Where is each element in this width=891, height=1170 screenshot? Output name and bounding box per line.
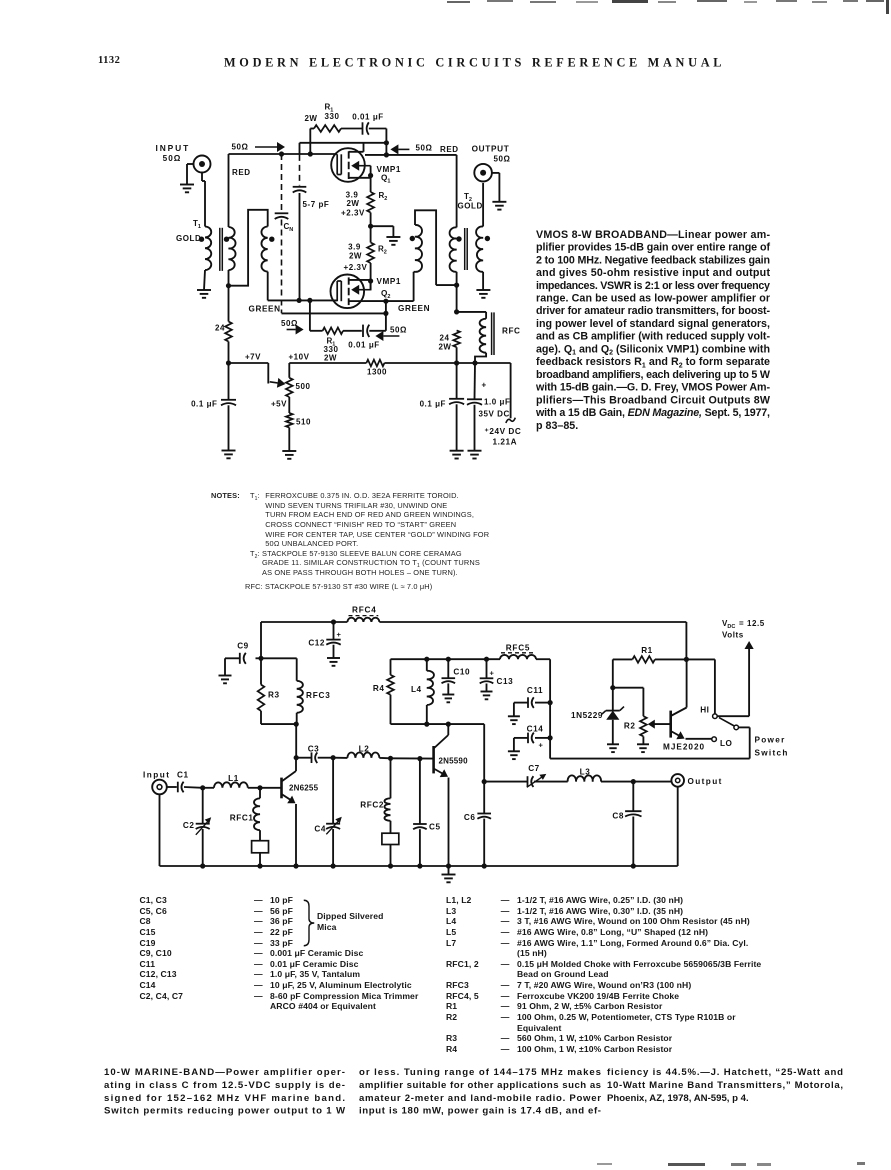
choke RFC3 (wound on R3) xyxy=(261,658,303,724)
svg-text:Volts: Volts xyxy=(722,631,744,640)
svg-text:50Ω: 50Ω xyxy=(390,326,407,335)
svg-text:ficiency is 44.5%.—J. Hatchett: ficiency is 44.5%.—J. Hatchett, “25-Watt… xyxy=(607,1067,843,1078)
svg-text:1N5229: 1N5229 xyxy=(571,711,603,720)
svg-text:+7V: +7V xyxy=(245,353,261,362)
svg-text:⁺24V DC: ⁺24V DC xyxy=(485,427,522,436)
parts list brace xyxy=(302,898,316,948)
node dot R1 left on gate line xyxy=(308,151,313,156)
svg-text:= 12.5: = 12.5 xyxy=(739,619,765,628)
svg-text:feedback resistors R1 and R2 t: feedback resistors R1 and R2 to form sep… xyxy=(536,356,770,369)
transformer T2 middle winding xyxy=(450,227,457,285)
choke RFC2 with ferrite bead xyxy=(382,758,399,866)
labels Input C1 xyxy=(143,771,189,780)
node dot mid R2 xyxy=(368,224,373,229)
resistor R3 560 ohm xyxy=(258,658,297,724)
parts list left column xyxy=(0,0,1,1)
capacitor C11 xyxy=(514,697,553,716)
svg-text:C10: C10 xyxy=(453,668,470,677)
inductor L4 (wound on R4) xyxy=(427,659,434,724)
svg-text:CN: CN xyxy=(284,222,294,233)
svg-text:range. Can be used as low-powe: range. Can be used as low-power amplifie… xyxy=(536,293,770,305)
supply rail +7V xyxy=(229,363,269,384)
node dot T2 bottom junction xyxy=(454,283,459,288)
parts list right column xyxy=(0,0,1,1)
svg-text:+2.3V: +2.3V xyxy=(344,263,368,272)
capacitor 0.01 uF (bottom) xyxy=(363,325,386,337)
svg-text:+: + xyxy=(490,669,495,678)
capacitor C9 xyxy=(225,653,261,676)
inductor L3 xyxy=(568,775,672,781)
node dots supply rail right xyxy=(454,360,478,365)
svg-text:RED: RED xyxy=(232,168,251,177)
svg-text:0.01 μF: 0.01 μF xyxy=(348,341,379,350)
svg-text:R2: R2 xyxy=(624,722,636,731)
ground (T2 right) xyxy=(476,290,490,298)
potentiometer 500 xyxy=(286,378,293,413)
resistor R1 (top feedback 330 2W) xyxy=(310,125,362,154)
svg-text:RFC3: RFC3 xyxy=(306,691,331,700)
choke RFC xyxy=(457,312,487,363)
ground (1.0uF) xyxy=(468,451,482,459)
supply feed +24V DC xyxy=(506,363,515,423)
svg-text:OUTPUT: OUTPUT xyxy=(472,145,510,154)
node dot R1 right xyxy=(684,657,689,662)
labels HI LO xyxy=(700,706,732,749)
resistor R1 91 ohm xyxy=(613,656,687,688)
svg-text:T1: T1 xyxy=(193,219,201,230)
capacitor C12 1uF tantalum xyxy=(326,622,340,658)
svg-text:and gives 50-ohm resistive inp: and gives 50-ohm resistive input and out… xyxy=(536,267,770,279)
svg-text:RFC: RFC xyxy=(502,327,520,336)
NOTES block xyxy=(211,491,240,501)
svg-text:HI: HI xyxy=(700,706,709,715)
svg-text:50Ω: 50Ω xyxy=(494,155,511,164)
capacitor 0.01 uF (top feedback) xyxy=(363,122,387,134)
capacitor C14 electrolytic xyxy=(514,733,553,752)
node dot L2/RFC2 xyxy=(388,756,393,761)
trimmer C2 xyxy=(196,788,212,866)
MOSFET Q2 (VMP1) xyxy=(331,275,371,309)
ground (output) xyxy=(492,202,506,210)
capacitor C10 xyxy=(442,659,456,694)
svg-text:50Ω: 50Ω xyxy=(281,319,298,328)
svg-text:Phoenix, AZ, 1978, AN-595, p 4: Phoenix, AZ, 1978, AN-595, p 4. xyxy=(607,1093,749,1104)
RFC core xyxy=(492,312,494,355)
wire Q1 drain line (RED) to T2 xyxy=(365,155,457,228)
output connector xyxy=(671,774,684,866)
svg-text:+2.3V: +2.3V xyxy=(341,209,365,218)
node dot Q2 drain xyxy=(383,299,388,304)
svg-text:24: 24 xyxy=(215,324,225,333)
polarity dot (red) xyxy=(224,237,229,242)
svg-text:0.01 μF: 0.01 μF xyxy=(352,113,383,122)
wire to 2N5590 base xyxy=(391,757,433,759)
svg-text:Switch permits reducing power: Switch permits reducing power output to … xyxy=(104,1106,346,1117)
RFC5 feed line xyxy=(448,658,500,660)
svg-text:RED: RED xyxy=(440,145,459,154)
input connector J1 xyxy=(187,156,211,185)
svg-text:3.9: 3.9 xyxy=(348,243,361,252)
wire T2 to supply node xyxy=(456,285,458,312)
ground (T1 gold) xyxy=(197,290,211,298)
svg-text:330: 330 xyxy=(325,112,340,121)
svg-text:0.1 μF: 0.1 μF xyxy=(420,400,446,409)
node dot RFC3 bottom xyxy=(294,722,299,727)
ground (0.1uF left) xyxy=(222,451,236,459)
svg-text:ing power level of standard si: ing power level of standard signal gener… xyxy=(536,318,770,330)
node dot output tap xyxy=(482,779,487,784)
wire supply drop (right of RFC5) xyxy=(549,659,551,758)
page number xyxy=(98,55,120,66)
label arrow 50ohm RED (right) xyxy=(390,144,458,155)
supply arrow VDC xyxy=(745,641,754,716)
input connector xyxy=(152,780,177,795)
wire lower feedback line xyxy=(282,301,386,331)
capacitor C5 xyxy=(413,759,427,866)
choke RFC4 xyxy=(347,616,379,622)
svg-text:C9: C9 xyxy=(237,642,249,651)
wire T1 red-bottom to green-top xyxy=(229,210,268,286)
ground (C14) xyxy=(508,751,520,759)
svg-text:50Ω: 50Ω xyxy=(416,144,433,153)
svg-text:2W: 2W xyxy=(324,354,337,363)
svg-text:or less. Tuning range of 144–1: or less. Tuning range of 144–175 MHz mak… xyxy=(359,1067,601,1078)
labels C14 + xyxy=(527,725,544,750)
T2 core xyxy=(465,228,468,270)
svg-text:GREEN: GREEN xyxy=(249,305,281,314)
ground (510) xyxy=(282,451,296,459)
svg-text:C5: C5 xyxy=(429,823,441,832)
node dots on Q2 gate line xyxy=(297,298,313,303)
svg-text:age). Q1 and Q2 (Siliconix VMP: age). Q1 and Q2 (Siliconix VMP1) combine… xyxy=(536,343,770,356)
node dot CN top xyxy=(279,151,284,156)
svg-text:C11: C11 xyxy=(527,686,543,695)
trimmer C4 xyxy=(326,758,342,866)
labels R1 330 2W xyxy=(304,103,339,124)
output connector J2 xyxy=(474,164,499,202)
wire Q2 drain to T2 xyxy=(364,272,414,301)
svg-text:ating in class C from 12.5-VDC: ating in class C from 12.5-VDC supply is… xyxy=(104,1080,345,1091)
ground (R2) xyxy=(637,744,649,752)
svg-text:50Ω: 50Ω xyxy=(163,154,182,163)
svg-text:C2: C2 xyxy=(183,821,195,830)
resistor 24 (left) xyxy=(225,286,232,363)
resistor 24 2W xyxy=(453,330,460,363)
svg-text:INPUT: INPUT xyxy=(155,143,190,153)
node dot C3/C4/L2 xyxy=(331,755,336,760)
resistor R2 (lower 3.9 2W) xyxy=(367,226,374,290)
svg-text:Switch: Switch xyxy=(755,749,789,758)
svg-text:Input: Input xyxy=(143,771,171,780)
rail node dots xyxy=(200,863,636,868)
resistor R1 (bottom feedback 330 2W) xyxy=(310,300,362,334)
svg-text:10-Watt Marine Band Transmitte: 10-Watt Marine Band Transmitters,” Motor… xyxy=(607,1080,843,1091)
svg-text:C14: C14 xyxy=(527,725,544,734)
wire to 2N6255 base xyxy=(260,787,281,789)
resistor 510 xyxy=(286,413,293,451)
svg-text:input is 180 mW, power gain is: input is 180 mW, power gain is 17.4 dB, … xyxy=(359,1106,601,1117)
capacitor C6 xyxy=(477,814,491,819)
ground (C10) xyxy=(442,695,454,703)
node dot zener xyxy=(610,685,615,690)
svg-text:1.21A: 1.21A xyxy=(493,438,518,447)
svg-text:10-W MARINE-BAND—Power amplifi: 10-W MARINE-BAND—Power amplifier oper- xyxy=(104,1067,345,1078)
svg-text:R2: R2 xyxy=(378,245,387,256)
node dot Q1 source xyxy=(368,173,373,178)
node dot 2N6255 collector xyxy=(294,755,299,760)
labels C12 + xyxy=(308,630,341,648)
svg-text:LO: LO xyxy=(720,739,733,748)
wire Q2 gate line (green) xyxy=(268,299,338,301)
svg-text:impedances. VSWR is 2:1 or les: impedances. VSWR is 2:1 or less over fre… xyxy=(536,280,770,292)
svg-text:Output: Output xyxy=(688,777,723,786)
ground (0.1uF right) xyxy=(450,451,464,459)
labels VMP1 Q2 xyxy=(377,277,402,300)
svg-text:C6: C6 xyxy=(464,813,476,822)
svg-text:VMOS 8-W BROADBAND—Linear powe: VMOS 8-W BROADBAND—Linear power am- xyxy=(536,229,770,241)
svg-text:RFC2: RFC2 xyxy=(360,801,384,810)
svg-text:+: + xyxy=(539,741,544,750)
node dot RFC branch xyxy=(454,309,459,314)
svg-text:amateur 2-meter and land-mobil: amateur 2-meter and land-mobile radio. P… xyxy=(359,1093,601,1104)
svg-text:0.1 μF: 0.1 μF xyxy=(191,400,217,409)
polarity dot (green) xyxy=(269,237,274,242)
ground (input) xyxy=(180,185,194,193)
svg-text:2W: 2W xyxy=(304,114,317,123)
label 50ohm with arrow (top left) xyxy=(232,142,285,152)
node dots drain junction xyxy=(384,140,389,157)
svg-text:C4: C4 xyxy=(314,825,326,834)
choke RFC1 with ferrite bead xyxy=(252,788,269,866)
transformer T2 left winding xyxy=(414,210,437,285)
svg-text:plifier provides 15-dB gain ov: plifier provides 15-dB gain over entire … xyxy=(536,242,770,254)
labels Power Switch xyxy=(755,736,789,758)
svg-text:1.0 μF: 1.0 μF xyxy=(484,398,510,407)
svg-text:RFC1: RFC1 xyxy=(230,814,254,823)
svg-text:2W: 2W xyxy=(438,343,451,352)
wire feedback to drain node xyxy=(300,129,387,155)
svg-text:Q1: Q1 xyxy=(381,174,390,185)
node dot C9/R3/RFC3 xyxy=(258,656,263,661)
T1 green winding xyxy=(261,227,267,301)
svg-text:L3: L3 xyxy=(580,768,591,777)
wire switched supply line xyxy=(550,727,750,758)
transistor MJE2020 xyxy=(671,659,712,739)
label GOLD + polarity dot xyxy=(176,234,204,243)
node dot lower feedback xyxy=(383,311,388,316)
svg-text:amplifier suitable for other a: amplifier suitable for other application… xyxy=(359,1080,601,1091)
svg-text:plifiers—This Broadband Circui: plifiers—This Broadband Circuit Outputs … xyxy=(536,394,771,406)
transformer T2 right winding xyxy=(476,183,483,290)
node dots R4/L4 bars xyxy=(424,657,451,727)
label INPUT 50ohm xyxy=(155,143,190,163)
node dot C5 tap xyxy=(417,756,422,761)
svg-text:broadband amplifiers, each del: broadband amplifiers, each delivering up… xyxy=(536,369,771,381)
svg-text:L1: L1 xyxy=(228,774,239,783)
capacitor 0.1 uF (left) xyxy=(221,363,236,451)
capacitor CN (neutralization, dash-dot line) xyxy=(275,154,289,313)
label 50ohm arrow (bottom left) xyxy=(281,319,304,335)
svg-text:L2: L2 xyxy=(359,745,370,754)
trimmer C7 xyxy=(484,774,568,787)
svg-text:Power: Power xyxy=(755,736,786,745)
resistor R2 (upper 3.9 2W) xyxy=(367,192,374,226)
inductor L2 xyxy=(333,753,390,759)
labels +24V DC 1.21A xyxy=(485,427,522,447)
node dot C12 xyxy=(331,619,336,624)
svg-text:p 83–85.: p 83–85. xyxy=(536,420,578,432)
svg-text:MJE2020: MJE2020 xyxy=(663,743,705,752)
output line C7/L3 xyxy=(448,724,484,866)
choke RFC5 xyxy=(500,653,550,659)
labels C13 + xyxy=(490,669,514,687)
svg-text:R1: R1 xyxy=(641,646,653,655)
R2 wiper arrow from MJE2020 base xyxy=(648,720,671,729)
svg-text:+10V: +10V xyxy=(288,353,309,362)
T1 core xyxy=(220,228,223,271)
wiper arrow into pot 500 xyxy=(277,378,286,388)
node dot L1/RFC1 xyxy=(257,785,262,790)
transistor 2N6255 xyxy=(282,758,297,866)
node A junction (T1 red bottom) xyxy=(226,283,231,288)
svg-text:VMP1: VMP1 xyxy=(377,277,402,286)
capacitor C13 tantalum xyxy=(480,657,494,692)
svg-text:R3: R3 xyxy=(268,691,280,700)
node dot C1/L1 xyxy=(200,785,205,790)
labels 1.0 uF 35V DC xyxy=(479,398,511,419)
labels 3.9 2W +2.3V R2 (lower) xyxy=(344,243,387,273)
svg-text:Q2: Q2 xyxy=(381,289,390,300)
svg-text:+: + xyxy=(482,381,487,390)
R4/L4 collector load bars xyxy=(391,659,449,724)
svg-text:C3: C3 xyxy=(308,745,320,754)
svg-text:2N5590: 2N5590 xyxy=(439,757,469,766)
label 50ohm arrow (bottom right) xyxy=(375,326,407,342)
labels T2 GOLD xyxy=(458,192,483,211)
svg-text:510: 510 xyxy=(296,418,311,427)
transistor 2N5590 xyxy=(434,724,449,866)
ground (R2 mid) xyxy=(386,237,400,245)
svg-text:R4: R4 xyxy=(373,684,385,693)
svg-text:2N6255: 2N6255 xyxy=(289,784,319,793)
MOSFET Q1 (VMP1) xyxy=(331,143,370,192)
zener diode 1N5229 xyxy=(602,688,624,745)
labels R1 330 2W (bottom) xyxy=(324,337,339,363)
capacitor C3 (series) xyxy=(296,752,333,763)
ground (rail) xyxy=(442,866,456,882)
svg-text:1300: 1300 xyxy=(367,368,387,377)
T1 red winding xyxy=(229,154,236,286)
ground (zener) xyxy=(607,744,619,752)
ground (C13) xyxy=(481,692,493,700)
svg-text:R2: R2 xyxy=(379,191,388,202)
transformer T1 gold winding xyxy=(204,227,211,291)
svg-text:RFC4: RFC4 xyxy=(352,606,377,615)
svg-text:with 15-dB gain.—G. D. Frey, V: with 15-dB gain.—G. D. Frey, VMOS Power … xyxy=(535,382,770,394)
wire gate line Q1 (50-ohm input line) xyxy=(229,153,338,155)
ground (C9) xyxy=(219,676,232,684)
svg-text:C13: C13 xyxy=(497,677,514,686)
labels VMP1 Q1 xyxy=(377,165,402,185)
svg-text:with a 15 dB Gain, EDN Magazin: with a 15 dB Gain, EDN Magazine, Sept. 5… xyxy=(535,407,770,419)
wire + ground (R2 midpoint) xyxy=(371,226,394,237)
svg-text:driver for amateur radio trans: driver for amateur radio transmitters, f… xyxy=(536,305,770,317)
wire T2 mid-bottom junction xyxy=(436,284,457,286)
resistor R4 xyxy=(387,659,394,724)
ground rail (bottom) xyxy=(160,794,678,866)
svg-text:2W: 2W xyxy=(346,199,359,208)
capacitor 1.0 uF 35V xyxy=(467,363,482,451)
svg-text:VDC: VDC xyxy=(722,619,735,630)
ground (C12) xyxy=(327,658,340,666)
svg-text:C12: C12 xyxy=(308,639,325,648)
svg-text:GOLD: GOLD xyxy=(176,234,201,243)
node dot C8 xyxy=(631,779,636,784)
node dot +7V xyxy=(226,360,231,365)
svg-text:2W: 2W xyxy=(349,252,362,261)
wire input to T1 xyxy=(201,173,203,182)
svg-text:GREEN: GREEN xyxy=(398,304,430,313)
inductor L1 xyxy=(203,782,260,787)
svg-text:and as CB amplifier (with redu: and as CB amplifier (with reduced supply… xyxy=(536,331,770,343)
capacitor C1 xyxy=(178,782,203,793)
top supply rail xyxy=(261,622,686,659)
ground (C11) xyxy=(508,716,520,724)
svg-text:24: 24 xyxy=(440,334,450,343)
capacitor 0.1 uF (right) xyxy=(449,363,464,451)
potentiometer R2 100 ohm xyxy=(613,688,647,745)
svg-text:35V DC: 35V DC xyxy=(479,410,510,419)
svg-text:signed for 152–162 MHz VHF mar: signed for 152–162 MHz VHF marine band. xyxy=(104,1093,345,1104)
wire down to Q1 collector node xyxy=(295,724,297,758)
labels 24 2W xyxy=(438,334,451,352)
svg-text:5-7 pF: 5-7 pF xyxy=(303,200,330,209)
svg-text:RFC5: RFC5 xyxy=(506,644,531,653)
capacitor C8 xyxy=(625,782,641,866)
svg-text:+: + xyxy=(337,630,342,639)
svg-text:MODERN ELECTRONIC CIRCUITS REF: MODERN ELECTRONIC CIRCUITS REFERENCE MAN… xyxy=(224,56,723,70)
supply rail +10V with resistor 1300 xyxy=(289,360,510,378)
svg-text:2 to 100 MHz. Negative feedbac: 2 to 100 MHz. Negative feedback stabiliz… xyxy=(536,254,770,266)
svg-text:50Ω: 50Ω xyxy=(232,143,249,152)
svg-text:C8: C8 xyxy=(612,812,624,821)
capacitor 5-7 pF branch xyxy=(293,143,307,301)
T2 polarity dots xyxy=(410,236,491,242)
svg-text:L4: L4 xyxy=(411,685,422,694)
svg-text:GOLD: GOLD xyxy=(458,202,483,211)
switch contacts HI/LO xyxy=(686,659,749,741)
label VDC = 12.5 Volts xyxy=(722,619,765,640)
svg-text:C7: C7 xyxy=(528,764,540,773)
node dot Q2 source xyxy=(368,278,373,283)
labels 3.9 2W +2.3V R2 (upper) xyxy=(341,191,387,218)
svg-text:500: 500 xyxy=(296,382,311,391)
labels OUTPUT 50ohm xyxy=(472,145,511,164)
svg-text:+5V: +5V xyxy=(271,400,287,409)
svg-text:C1: C1 xyxy=(177,771,189,780)
